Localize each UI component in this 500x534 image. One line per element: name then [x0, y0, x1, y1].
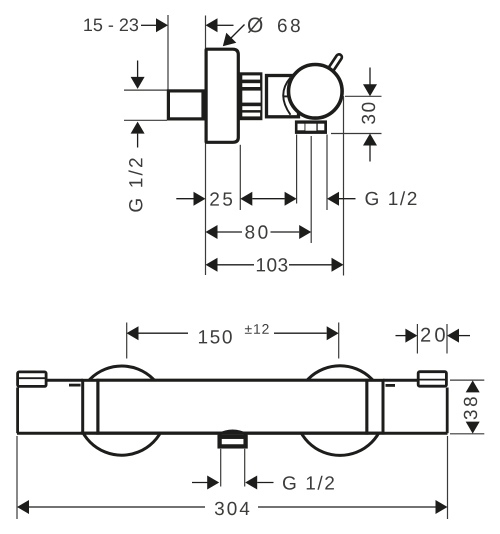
dimension 304 extension left [16, 436, 18, 519]
dimension 38 extension bottom [450, 433, 484, 435]
dimension 20 text [421, 328, 445, 342]
right pipe top line [383, 379, 418, 382]
extension line outlet right [326, 135, 328, 211]
dimension 38 text [464, 397, 478, 419]
dimension 30 extension top [345, 95, 382, 97]
dimension 150 extension right [338, 323, 340, 359]
dimension 80 [206, 225, 218, 239]
dimension G 1/2 bottom arrows [192, 482, 209, 484]
bottom outline [17, 432, 448, 435]
outlet pipe left line [220, 449, 222, 487]
dimension 304 extension right [447, 436, 449, 519]
right wall plate [418, 372, 446, 387]
valve body [267, 76, 299, 117]
dimension 20 extension right [446, 324, 448, 354]
left box edge [16, 388, 19, 434]
nipple extension line bottom [124, 119, 167, 121]
mixer body bar [98, 380, 367, 433]
dimension D68 arrow [206, 18, 218, 32]
escutcheon [206, 49, 238, 142]
dimension 25 right arrow pair [240, 192, 252, 206]
dimension G 1/2 right arrow [327, 192, 339, 206]
dimension 38 arrow up [466, 380, 480, 392]
dimension G 1/2 bottom text [283, 476, 334, 490]
dimension 25 left arrow [176, 198, 194, 200]
dimension 30 arrow up [363, 134, 377, 146]
extension line handle right [343, 96, 345, 276]
G 1/2 left arrow up [131, 122, 145, 134]
cartridge dome split line [283, 95, 289, 97]
dimension 25 text [210, 192, 232, 206]
left union nut [83, 380, 98, 433]
dimension 30 text [362, 103, 376, 124]
left step dash [69, 384, 81, 387]
right step dash [386, 384, 396, 387]
dimension 20 arrows [396, 335, 407, 337]
dimension 38 arrow down [466, 422, 480, 434]
outlet pipe right line [244, 449, 246, 487]
left pipe top line [47, 379, 83, 382]
hose outlet nut [295, 120, 327, 133]
dimension 20 extension left [416, 324, 418, 354]
right union nut [367, 380, 383, 433]
left pipe mask [44, 382, 83, 432]
right box edge [446, 388, 449, 434]
left wall plate [18, 372, 46, 387]
inlet nipple [168, 91, 203, 119]
cartridge dome arc [283, 78, 290, 115]
handle knob circle [289, 65, 343, 119]
dimension 150 extension left [126, 323, 128, 359]
extension line escutcheon rear face [239, 145, 241, 210]
right rosette [295, 366, 385, 456]
wall reference line [167, 15, 169, 120]
outlet dome [218, 431, 247, 435]
dimension G 1/2 right text [366, 191, 417, 205]
dimension 304 text [215, 502, 249, 516]
extension line outlet left [296, 135, 298, 204]
dimension 38 extension top [450, 379, 484, 381]
handle lever [329, 57, 339, 73]
dimension 30 extension bottom [331, 133, 382, 135]
extension line escutcheon front face [205, 16, 207, 276]
left rosette [77, 366, 166, 455]
dimension 150 text [199, 330, 232, 344]
nipple extension line top [124, 89, 167, 91]
dimension D68 leader [230, 25, 245, 40]
dimension 15-23 arrow [141, 24, 157, 26]
dimension D68 text [248, 17, 263, 33]
check-valve knurled nut [239, 72, 263, 120]
dimension 103 [206, 258, 218, 272]
right pipe mask [383, 382, 417, 432]
outlet hose nut [220, 437, 246, 447]
dimension 15-23 text [84, 18, 138, 31]
dimension 150 tolerance [245, 324, 269, 334]
dimension 150 arrows [127, 326, 139, 340]
extension line outlet centre [310, 136, 312, 243]
dimension 304 arrows [17, 500, 29, 514]
dimension 30 arrow down [369, 68, 371, 86]
G 1/2 left arrow down [137, 61, 139, 78]
G 1/2 left text [129, 158, 143, 211]
